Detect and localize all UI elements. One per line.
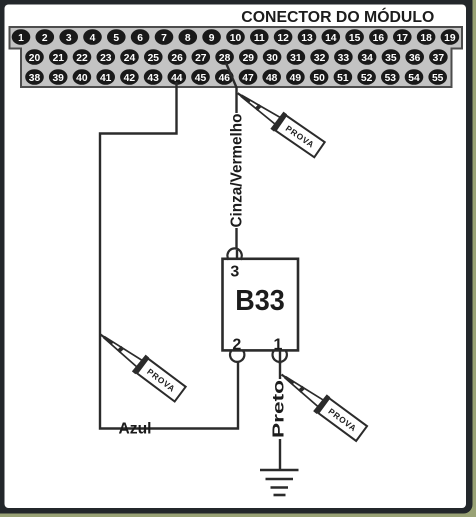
svg-text:39: 39: [52, 73, 64, 84]
svg-text:21: 21: [53, 53, 65, 64]
svg-text:36: 36: [409, 53, 421, 64]
svg-text:50: 50: [313, 73, 325, 84]
svg-text:2: 2: [232, 336, 241, 353]
svg-text:52: 52: [361, 73, 373, 84]
svg-text:48: 48: [266, 73, 278, 84]
svg-text:29: 29: [243, 53, 255, 64]
svg-text:35: 35: [385, 53, 397, 64]
svg-text:CONECTOR DO MÓDULO: CONECTOR DO MÓDULO: [241, 7, 434, 26]
svg-text:27: 27: [195, 53, 207, 64]
svg-text:26: 26: [171, 53, 183, 64]
svg-text:1: 1: [18, 33, 24, 44]
svg-text:38: 38: [29, 73, 41, 84]
svg-text:46: 46: [219, 73, 231, 84]
svg-text:28: 28: [219, 53, 231, 64]
svg-text:5: 5: [113, 33, 119, 44]
svg-text:32: 32: [314, 53, 326, 64]
svg-text:18: 18: [420, 33, 432, 44]
svg-text:55: 55: [432, 73, 444, 84]
svg-text:34: 34: [361, 53, 373, 64]
svg-text:4: 4: [90, 33, 96, 44]
svg-text:47: 47: [242, 73, 254, 84]
svg-text:51: 51: [337, 73, 349, 84]
svg-text:Azul: Azul: [119, 421, 152, 438]
svg-text:43: 43: [147, 73, 159, 84]
svg-text:25: 25: [148, 53, 160, 64]
svg-text:3: 3: [66, 33, 72, 44]
svg-text:13: 13: [301, 33, 313, 44]
svg-text:22: 22: [76, 53, 88, 64]
svg-text:8: 8: [185, 33, 191, 44]
svg-text:19: 19: [444, 33, 456, 44]
svg-text:3: 3: [230, 264, 239, 281]
svg-text:42: 42: [124, 73, 136, 84]
svg-text:30: 30: [266, 53, 278, 64]
svg-text:40: 40: [76, 73, 88, 84]
svg-text:12: 12: [277, 33, 289, 44]
svg-text:11: 11: [254, 33, 265, 44]
svg-text:24: 24: [124, 53, 136, 64]
svg-text:20: 20: [29, 53, 41, 64]
svg-text:17: 17: [397, 33, 409, 44]
svg-text:53: 53: [385, 73, 397, 84]
svg-text:49: 49: [290, 73, 302, 84]
svg-text:45: 45: [195, 73, 207, 84]
svg-text:31: 31: [290, 53, 302, 64]
svg-text:54: 54: [408, 73, 420, 84]
svg-text:33: 33: [338, 53, 350, 64]
svg-text:1: 1: [273, 336, 282, 353]
svg-text:15: 15: [349, 33, 361, 44]
svg-text:B33: B33: [235, 285, 285, 317]
svg-text:16: 16: [373, 33, 385, 44]
svg-text:9: 9: [209, 33, 215, 44]
svg-text:7: 7: [161, 33, 167, 44]
svg-text:23: 23: [100, 53, 112, 64]
svg-text:6: 6: [137, 33, 143, 44]
svg-text:41: 41: [100, 73, 112, 84]
svg-text:Preto: Preto: [271, 380, 288, 438]
svg-text:Cinza/Vermelho: Cinza/Vermelho: [228, 113, 245, 227]
svg-text:2: 2: [42, 33, 48, 44]
svg-text:37: 37: [433, 53, 445, 64]
svg-text:10: 10: [230, 33, 242, 44]
svg-text:14: 14: [325, 33, 337, 44]
